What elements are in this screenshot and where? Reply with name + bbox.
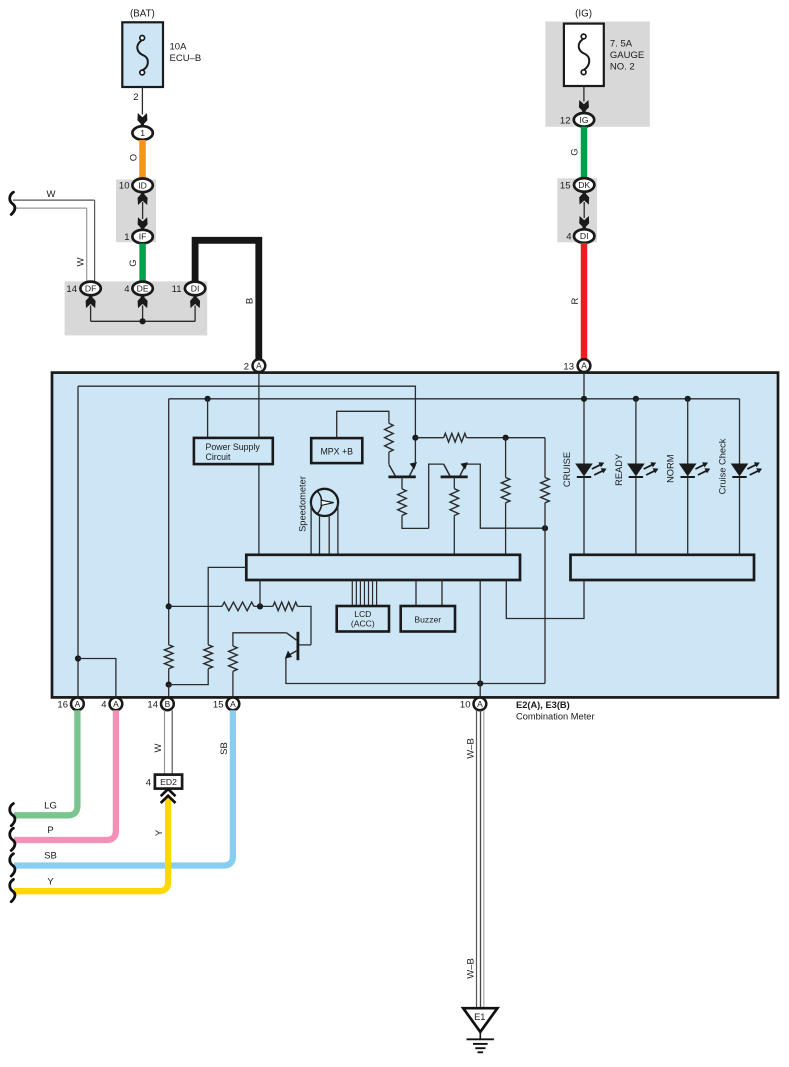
svg-text:15: 15 xyxy=(213,700,224,711)
LCD ACC box U3 xyxy=(337,606,389,632)
led wires to bar xyxy=(583,477,585,554)
wire 2A through xyxy=(258,373,260,555)
junction dot A xyxy=(412,435,418,441)
svg-text:DI: DI xyxy=(191,284,200,294)
wire Q2 emitter xyxy=(467,464,545,528)
wire Q3 emitter xyxy=(286,658,545,684)
wire B black thick xyxy=(195,240,259,360)
svg-text:A: A xyxy=(230,699,236,709)
terminal oval DI xyxy=(185,282,205,296)
wire Q1 base resistor xyxy=(401,477,403,489)
junction dot C xyxy=(542,525,548,531)
svg-text:W: W xyxy=(153,743,164,752)
wire PSC feed xyxy=(207,399,209,438)
connector box DK-DI xyxy=(557,178,597,242)
wire R1 to Q1 xyxy=(388,452,390,465)
arrow into terminal 1 xyxy=(137,113,147,125)
led NORM xyxy=(679,462,710,477)
resistor R4 vertical xyxy=(450,489,459,516)
svg-text:4: 4 xyxy=(101,700,106,711)
wire bar link bottom xyxy=(506,580,584,619)
wire break squiggle LG xyxy=(10,804,15,826)
svg-text:B: B xyxy=(244,298,255,304)
wire P xyxy=(14,710,116,840)
svg-text:ECU–B: ECU–B xyxy=(170,53,202,64)
transistor Q3 xyxy=(285,632,298,660)
junction dot LED2 xyxy=(633,396,639,402)
wire R5 to bar xyxy=(505,503,507,555)
svg-text:E1: E1 xyxy=(474,1012,485,1022)
wire LED4 drop xyxy=(739,399,741,464)
svg-text:7. 5A: 7. 5A xyxy=(610,39,633,50)
terminal oval DI right xyxy=(574,229,594,243)
svg-text:12: 12 xyxy=(560,116,571,127)
arrow up into DK xyxy=(579,192,589,204)
wire MPX feed xyxy=(337,411,389,438)
wire R11 to Q3 base xyxy=(233,633,287,646)
wire R9 to Q3 collector xyxy=(298,606,312,645)
svg-text:(ACC): (ACC) xyxy=(351,619,375,629)
connector box ID-IF xyxy=(116,180,156,243)
wire G green right xyxy=(581,127,588,179)
wire bus2 top xyxy=(169,398,740,400)
svg-text:Circuit: Circuit xyxy=(206,452,231,462)
svg-text:10A: 10A xyxy=(170,42,188,53)
wire R6 top feed xyxy=(544,438,546,478)
svg-text:NORM: NORM xyxy=(666,454,676,482)
resistor R6 vertical xyxy=(541,478,550,503)
ic bar left xyxy=(246,555,520,580)
arrow into IG xyxy=(579,100,589,112)
wire O orange xyxy=(139,140,146,179)
ground symbol xyxy=(467,1032,494,1052)
ground ED2 box xyxy=(155,775,182,789)
wire LG xyxy=(14,710,77,815)
wire branch to 4A xyxy=(78,659,116,698)
led CRUISE xyxy=(575,462,606,477)
junction dot R7 xyxy=(166,682,172,688)
arrow up into DI xyxy=(190,296,200,308)
svg-text:Cruise Check: Cruise Check xyxy=(717,438,727,494)
svg-text:IG: IG xyxy=(579,115,588,125)
wire fuse to terminal 1 xyxy=(141,87,143,115)
junction dot LED3 xyxy=(685,396,691,402)
svg-text:SB: SB xyxy=(219,742,230,755)
arrow down into IF xyxy=(138,217,148,229)
transistor Q1 xyxy=(388,462,417,477)
ground chevrons ED2 xyxy=(161,789,176,796)
svg-text:P: P xyxy=(47,825,53,836)
wire R2 right xyxy=(467,437,546,439)
svg-text:A: A xyxy=(256,361,262,371)
wire 10A vertical xyxy=(479,580,481,697)
wire W-B triple-line xyxy=(476,710,478,1009)
svg-text:4: 4 xyxy=(124,284,129,295)
svg-text:W–B: W–B xyxy=(465,958,476,979)
svg-text:W: W xyxy=(47,189,56,200)
svg-text:DF: DF xyxy=(85,284,96,294)
wire R6 down long xyxy=(544,503,546,684)
terminal oval DE xyxy=(132,282,152,296)
svg-text:1: 1 xyxy=(124,232,129,243)
resistor R3 vertical xyxy=(398,489,407,516)
wire to 14B xyxy=(168,685,170,697)
svg-text:A: A xyxy=(477,699,483,709)
svg-text:A: A xyxy=(113,699,119,709)
svg-text:16: 16 xyxy=(57,700,68,711)
wire bar left edge link xyxy=(208,567,246,644)
svg-text:G: G xyxy=(128,259,139,266)
svg-text:Power Supply: Power Supply xyxy=(206,442,261,452)
svg-text:NO. 2: NO. 2 xyxy=(610,62,635,73)
MPX +B box U2 xyxy=(311,438,362,463)
wire R red xyxy=(581,243,588,361)
wire ID to IF xyxy=(142,202,144,219)
connector box DF-DE-DI xyxy=(65,281,208,335)
junction dot 4A branch xyxy=(75,655,81,661)
wire break squiggle P xyxy=(10,828,15,850)
svg-text:O: O xyxy=(128,154,139,161)
arrow down into DI right xyxy=(579,216,589,228)
ic bar right xyxy=(571,555,755,580)
junction dot B xyxy=(503,435,509,441)
svg-text:A: A xyxy=(75,699,81,709)
wire LED3 drop xyxy=(687,399,689,464)
wire Q2 collector path xyxy=(429,464,444,528)
svg-text:Speedometer: Speedometer xyxy=(297,476,307,532)
wire 15A resistor feed xyxy=(232,671,234,697)
wire R4 to bar xyxy=(453,516,455,555)
svg-text:W–B: W–B xyxy=(465,738,476,759)
wire Q2 base resistor xyxy=(453,477,455,489)
svg-text:IF: IF xyxy=(139,232,147,242)
speedometer gauge xyxy=(311,489,338,516)
svg-text:SB: SB xyxy=(44,851,57,862)
svg-text:Combination Meter: Combination Meter xyxy=(516,712,595,722)
svg-text:14: 14 xyxy=(147,700,158,711)
svg-text:MPX +B: MPX +B xyxy=(320,446,353,456)
resistor R10 vertical xyxy=(204,645,213,669)
power supply circuit box U1 xyxy=(194,438,273,464)
svg-text:DK: DK xyxy=(578,180,590,190)
fuse element F1 xyxy=(137,36,148,75)
svg-text:G: G xyxy=(569,148,580,155)
relay block grey box IG xyxy=(545,22,649,127)
wire G green left xyxy=(139,244,146,283)
svg-text:Y: Y xyxy=(47,876,54,887)
svg-text:Buzzer: Buzzer xyxy=(414,614,441,624)
svg-text:DE: DE xyxy=(137,284,149,294)
resistor R11 vertical xyxy=(229,646,238,671)
resistor R8 horizontal xyxy=(222,602,254,611)
junction dot resnet xyxy=(166,603,172,609)
svg-text:(BAT): (BAT) xyxy=(130,9,155,20)
buzzer wires xyxy=(415,580,417,606)
junction dot PSC xyxy=(205,396,211,402)
wire R8 to R9 xyxy=(254,605,273,607)
wire Q3 collector xyxy=(299,644,311,646)
resistor R7 vertical xyxy=(164,645,173,669)
wire bus2 left drop xyxy=(168,399,170,645)
wire bus1 top xyxy=(78,386,415,438)
wire break squiggle SB xyxy=(10,854,15,876)
svg-text:ID: ID xyxy=(138,180,147,190)
svg-text:Y: Y xyxy=(154,829,165,836)
fuse 7.5A GAUGE box xyxy=(564,24,604,86)
arrow up into DE xyxy=(138,296,148,308)
wire DK to DI xyxy=(583,202,585,218)
svg-text:R: R xyxy=(570,297,581,304)
svg-text:2: 2 xyxy=(244,361,249,372)
terminal oval IF xyxy=(132,230,152,244)
buzzer box U4 xyxy=(401,606,455,632)
wire SB xyxy=(14,710,233,865)
svg-text:READY: READY xyxy=(614,454,624,486)
fuse 10A ECU-B box xyxy=(122,22,163,87)
wire R3 down xyxy=(402,516,429,529)
combination meter box xyxy=(52,373,778,698)
lcd hatch wires xyxy=(352,580,376,606)
svg-text:LG: LG xyxy=(44,801,57,812)
wire Y xyxy=(14,798,168,892)
resistor R9 horizontal xyxy=(273,602,298,611)
svg-text:E2(A), E3(B): E2(A), E3(B) xyxy=(516,700,570,710)
svg-text:2: 2 xyxy=(133,92,138,103)
svg-text:10: 10 xyxy=(119,181,130,192)
wire W white double-line xyxy=(13,199,95,201)
wire resnet xyxy=(169,605,222,607)
svg-text:10: 10 xyxy=(460,700,471,711)
svg-text:4: 4 xyxy=(146,777,151,788)
wire to R2 xyxy=(415,437,443,439)
resistor R2 horizontal xyxy=(444,433,467,442)
svg-text:1: 1 xyxy=(140,128,145,138)
junction dot E xyxy=(477,680,483,686)
wire left vertical 16A xyxy=(77,386,79,697)
junction dot D xyxy=(257,603,263,609)
terminal oval DF xyxy=(80,282,100,296)
terminal oval 1 xyxy=(132,126,152,140)
wire R5 top feed xyxy=(505,438,507,478)
arrow up into ID xyxy=(138,193,148,205)
ground point E1 triangle xyxy=(463,1008,497,1032)
led Cruise Check xyxy=(731,462,762,477)
wire Q1 emitter up xyxy=(414,438,416,464)
led READY xyxy=(627,462,658,477)
arrow up into DF xyxy=(86,296,96,308)
svg-text:4: 4 xyxy=(566,232,571,243)
wire fuse to IG terminal xyxy=(583,86,585,102)
terminal oval DK xyxy=(574,178,594,192)
transistor Q2 xyxy=(441,462,468,477)
svg-text:A: A xyxy=(581,361,587,371)
svg-text:LCD: LCD xyxy=(354,609,371,619)
wire W to ED2 xyxy=(164,710,166,774)
wire bar feed down xyxy=(259,580,261,606)
wire R7 bottom xyxy=(168,669,170,685)
svg-text:ED2: ED2 xyxy=(160,777,177,787)
fuse element F2 xyxy=(579,34,590,75)
bus wire in connector box xyxy=(90,306,92,322)
svg-text:11: 11 xyxy=(172,284,182,295)
speedometer wires xyxy=(310,503,312,555)
svg-text:13: 13 xyxy=(563,361,574,372)
svg-text:GAUGE: GAUGE xyxy=(610,50,644,61)
svg-text:14: 14 xyxy=(66,284,77,295)
svg-text:(IG): (IG) xyxy=(575,9,592,20)
svg-text:CRUISE: CRUISE xyxy=(562,452,572,487)
wire LED2 drop xyxy=(635,399,637,464)
resistor R5 vertical xyxy=(501,478,510,503)
wire R10 bottom xyxy=(169,669,209,685)
wire break squiggle Y xyxy=(10,879,15,901)
svg-text:DI: DI xyxy=(580,231,589,241)
svg-text:W: W xyxy=(75,257,86,266)
wire break squiggle W xyxy=(10,192,15,214)
resistor R1 vertical xyxy=(385,423,394,452)
terminal oval ID xyxy=(132,179,152,193)
terminal oval IG xyxy=(574,113,594,127)
junction dot LED1 xyxy=(581,396,587,402)
svg-text:15: 15 xyxy=(560,181,571,192)
svg-text:B: B xyxy=(165,699,171,709)
junction dot bus xyxy=(140,318,146,324)
wire 13A drop xyxy=(583,373,585,464)
